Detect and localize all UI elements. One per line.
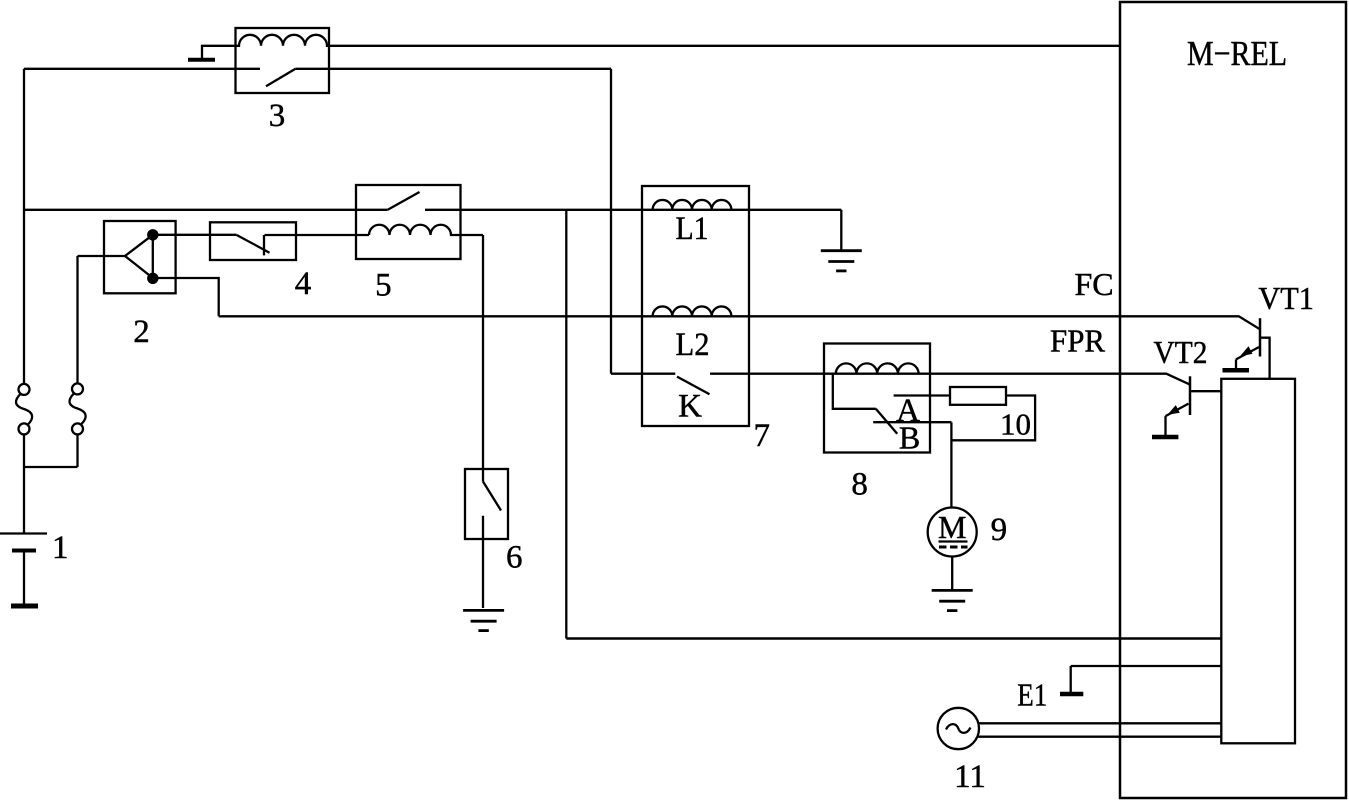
wire: pivot bracket in 8 [833, 374, 876, 409]
inductor coil in 8 [836, 363, 919, 373]
wire: stub from node 2 apex to right vertical [78, 255, 126, 257]
svg-text:10: 10 [1000, 407, 1031, 442]
connector S-link left [16, 394, 32, 425]
svg-text:VT1: VT1 [1258, 280, 1314, 316]
switch blade in 4 [237, 235, 270, 253]
wire: vertical return rail x566 [565, 210, 567, 639]
relay module M-REL box [1120, 2, 1346, 798]
wire: drop x612 to contact K lead [611, 373, 675, 375]
svg-text:M−REL: M−REL [1187, 34, 1287, 73]
svg-text:7: 7 [753, 418, 770, 454]
svg-text:3: 3 [269, 98, 286, 134]
component box 2 [104, 221, 176, 293]
wire: FPR line from K through coil 8 to VT2 base [710, 374, 1190, 385]
wire: switch 6 to ground [482, 516, 484, 608]
transistor VT1 emitter arrow [1240, 346, 1253, 356]
ground after L1 [821, 251, 862, 271]
inductor coil in 5 [369, 225, 483, 235]
node dot top in 2 [147, 229, 158, 240]
wire: dot top of 2 to switch 4 [153, 234, 237, 236]
svg-text:6: 6 [506, 540, 523, 576]
wire: coil 5 to switch 6 [482, 235, 484, 482]
switch blade in 5 [388, 192, 420, 210]
connector S-link right [69, 393, 85, 424]
svg-text:2: 2 [133, 314, 150, 350]
chassis ground of VT1 [1223, 368, 1250, 373]
connector contact circles left [19, 384, 30, 395]
svg-text:E1: E1 [1017, 677, 1047, 713]
wire: vertical drop x612 to contact K [610, 69, 612, 374]
wire: switch 5 through L1 to ground drop [425, 209, 841, 211]
wire: bottom return rail [566, 637, 1221, 640]
motor 9 dashed line [939, 546, 968, 549]
wire: contact B to motor [950, 422, 952, 507]
wire: source 11 upper lead [978, 722, 1221, 724]
svg-text:B: B [899, 420, 920, 456]
wire: top supply line from coil 3 to M-REL [329, 45, 1120, 47]
wire: left vertical to battery [23, 434, 25, 533]
svg-text:4: 4 [295, 266, 312, 302]
chassis ground of VT2 [1152, 435, 1178, 440]
wire: motor to ground [951, 557, 953, 590]
svg-text:K: K [678, 389, 702, 425]
selector triangle in 2 [125, 235, 153, 278]
chassis ground of battery [11, 604, 38, 609]
motor 9 circle [928, 508, 977, 557]
inductor L2 [653, 306, 732, 316]
switch blade in 3 [266, 69, 296, 86]
wire: join of both verticals [24, 466, 78, 468]
wire: E1 line to relay block [1071, 665, 1222, 667]
wire: switch 4 to coil 5 [265, 234, 370, 236]
svg-text:VT2: VT2 [1154, 334, 1208, 370]
svg-text:FPR: FPR [1050, 323, 1106, 359]
svg-text:L1: L1 [676, 211, 709, 247]
AC source 11 tilde [946, 724, 971, 733]
wire: left rail to switch 3 [24, 68, 260, 70]
chassis ground of coil 3 [188, 58, 215, 62]
component box 6 [465, 469, 508, 539]
AC source 11 circle [938, 708, 979, 749]
wire: resistor 10 return loop [951, 396, 1035, 441]
svg-text:9: 9 [991, 512, 1008, 548]
svg-text:L2: L2 [676, 327, 710, 363]
component box 8 [824, 344, 930, 453]
chassis ground E1 [1060, 692, 1083, 697]
svg-text:M: M [938, 509, 966, 545]
node dot bottom in 2 [147, 273, 158, 284]
inductor L1 [653, 200, 732, 210]
wire: VT2 emitter to chassis [1164, 416, 1166, 435]
transistor VT2 emitter [1166, 404, 1189, 417]
wire: left vertical rail top [23, 69, 25, 384]
transistor VT2 emitter arrow [1167, 405, 1180, 415]
resistor 10 [950, 387, 1006, 405]
relay coil block in M-REL [1221, 379, 1295, 744]
ground below 6 [463, 610, 504, 630]
battery 1 positive plate [0, 532, 47, 534]
switch blade in 8 [876, 409, 897, 434]
switch blade K [677, 377, 710, 395]
connector contact circles right [72, 383, 83, 394]
switch blade in 6 [483, 482, 501, 511]
wire: switch 3 to drop at x612 [296, 68, 612, 70]
component box 7 [642, 186, 749, 426]
ground below motor [932, 590, 973, 610]
svg-text:1: 1 [52, 530, 69, 566]
wire: right vertical rail top [76, 256, 78, 383]
wire: source 11 lower lead [977, 736, 1221, 738]
wire: battery to chassis [23, 551, 25, 604]
switch contact in 4 [263, 235, 265, 255]
wire: contact A to resistor 10 [894, 394, 950, 396]
component box 5 [356, 185, 461, 259]
wire: ground drop after L1 [840, 210, 842, 250]
battery 1 negative plate [12, 549, 36, 553]
wire: contact B line [873, 421, 951, 423]
svg-text:5: 5 [375, 268, 392, 304]
svg-text:FC: FC [1075, 266, 1114, 302]
wire: left rail to switch 5 [24, 209, 388, 211]
wire: FC line from node 2 to VT1 base [219, 316, 1260, 329]
wire: right vertical lower [76, 434, 78, 467]
inductor coil in 3 [236, 35, 330, 46]
transistor VT1 emitter [1236, 347, 1259, 359]
transistor VT1 collector [1260, 338, 1270, 379]
motor 9 underline [939, 540, 968, 542]
wire: dot bottom of 2 to FC line [153, 278, 219, 316]
svg-text:11: 11 [954, 759, 986, 795]
wire: coil 3 left lead to chassis [202, 46, 236, 58]
transistor VT2 collector [1190, 390, 1221, 392]
transistor VT2 base bar [1189, 376, 1192, 415]
wire: VT1 emitter to chassis [1235, 359, 1237, 368]
component box 3 [236, 28, 330, 93]
wire: E1 drop to chassis [1070, 666, 1072, 692]
component box 4 [210, 222, 296, 260]
svg-text:8: 8 [851, 467, 868, 503]
transistor VT1 base bar [1259, 318, 1262, 356]
